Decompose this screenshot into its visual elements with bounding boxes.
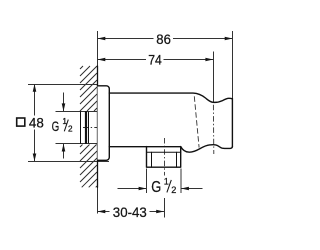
svg-text:2: 2: [171, 185, 176, 195]
svg-text:74: 74: [148, 52, 162, 68]
svg-text:30-43: 30-43: [113, 204, 147, 220]
svg-text:G: G: [52, 118, 60, 134]
svg-text:1: 1: [164, 177, 169, 187]
svg-text:G: G: [151, 179, 161, 196]
svg-text:2: 2: [68, 125, 73, 134]
svg-text:48: 48: [29, 115, 44, 130]
svg-text:86: 86: [156, 31, 171, 47]
